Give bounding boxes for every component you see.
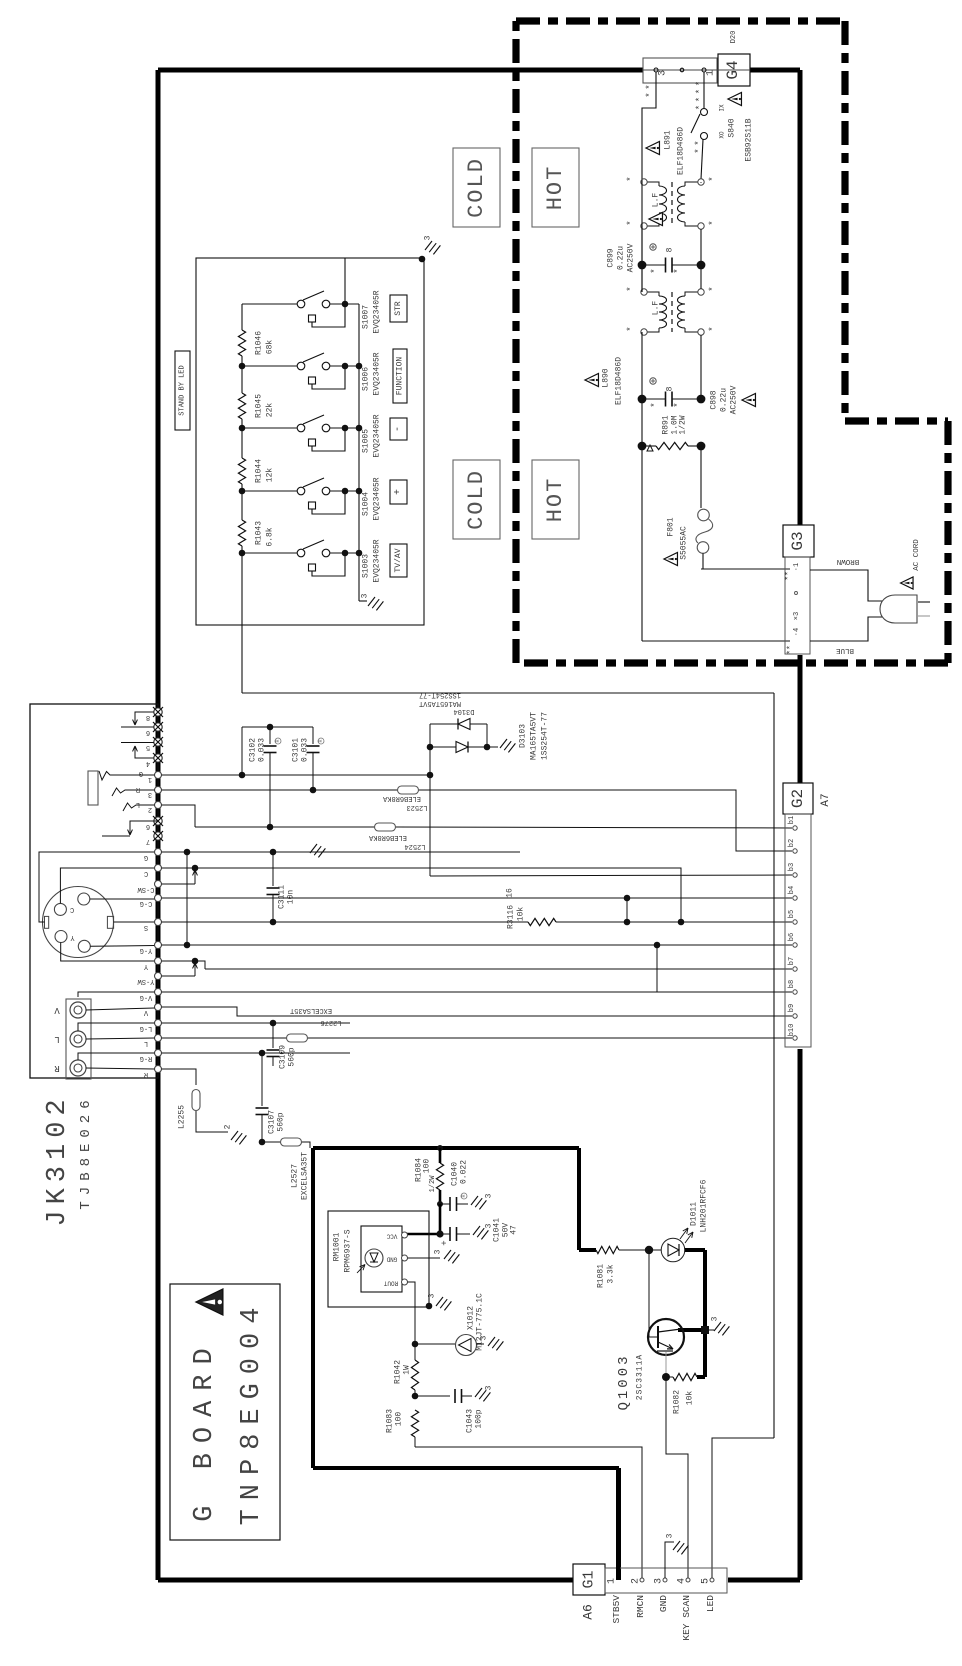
svg-text:2: 2 xyxy=(148,805,152,813)
svg-text:3: 3 xyxy=(485,1385,494,1390)
svg-text:*: * xyxy=(694,148,704,153)
svg-text:*: * xyxy=(695,105,705,110)
svg-text:G2: G2 xyxy=(789,789,807,808)
svg-text:D1011: D1011 xyxy=(690,1202,699,1226)
svg-text:R1083: R1083 xyxy=(386,1409,395,1433)
svg-text:1: 1 xyxy=(607,1578,618,1584)
svg-text:10k: 10k xyxy=(686,1391,695,1406)
svg-text:4: 4 xyxy=(146,759,150,767)
svg-text:3: 3 xyxy=(434,1249,443,1254)
svg-text:EVQ23405R: EVQ23405R xyxy=(373,414,382,457)
svg-text:LNH201RFCF6: LNH201RFCF6 xyxy=(700,1179,709,1232)
svg-text:R1044: R1044 xyxy=(255,459,264,483)
svg-text:**: ** xyxy=(787,645,796,655)
svg-text:EVQ23405R: EVQ23405R xyxy=(373,477,382,520)
svg-text:KEY SCAN: KEY SCAN xyxy=(681,1595,692,1641)
svg-text:S1007: S1007 xyxy=(362,305,371,329)
svg-text:*: * xyxy=(645,92,655,97)
svg-text:L890: L890 xyxy=(602,368,611,387)
svg-text:TJB8E026: TJB8E026 xyxy=(78,1094,94,1209)
svg-text:ROUT: ROUT xyxy=(383,1280,398,1287)
svg-text:*: * xyxy=(708,326,718,331)
svg-text:S840: S840 xyxy=(728,118,737,137)
svg-text:GND: GND xyxy=(386,1256,397,1263)
svg-text:C899: C899 xyxy=(607,248,616,267)
svg-text:100: 100 xyxy=(395,1412,404,1427)
svg-text:*: * xyxy=(626,286,636,291)
svg-text:C: C xyxy=(70,905,74,913)
svg-text:STB5V: STB5V xyxy=(611,1595,622,1624)
svg-text:STR: STR xyxy=(394,301,403,316)
svg-text:100p: 100p xyxy=(475,1409,484,1428)
svg-text:*: * xyxy=(650,402,660,407)
svg-text:AC250V: AC250V xyxy=(730,385,739,414)
svg-text:V: V xyxy=(54,1005,60,1015)
svg-text:R1042: R1042 xyxy=(394,1360,403,1384)
svg-text:8: 8 xyxy=(666,247,675,252)
svg-text:R-G: R-G xyxy=(140,1054,153,1062)
svg-text:8: 8 xyxy=(666,386,675,391)
svg-text:b4: b4 xyxy=(788,886,796,894)
svg-text:C3102: C3102 xyxy=(249,738,258,762)
svg-text:+: + xyxy=(440,1240,450,1245)
svg-text:3: 3 xyxy=(711,1316,720,1321)
svg-text:*: * xyxy=(695,97,705,102)
svg-text:0.033: 0.033 xyxy=(258,738,267,762)
svg-text:*: * xyxy=(695,81,705,86)
svg-text:L2255: L2255 xyxy=(178,1105,187,1129)
svg-text:STAND BY LED: STAND BY LED xyxy=(179,365,187,415)
svg-text:2: 2 xyxy=(224,1124,233,1129)
svg-text:R3116: R3116 xyxy=(507,905,516,929)
svg-text:*: * xyxy=(626,176,636,181)
svg-text:C3107: C3107 xyxy=(268,1110,277,1134)
svg-text:560p: 560p xyxy=(288,1047,297,1066)
svg-text:S5055AC: S5055AC xyxy=(680,526,689,560)
svg-text:1W: 1W xyxy=(403,1365,412,1375)
svg-text:b7: b7 xyxy=(788,957,796,965)
svg-text:R: R xyxy=(275,739,281,742)
svg-text:*: * xyxy=(650,268,660,273)
svg-text:3: 3 xyxy=(424,235,433,240)
svg-text:C3109: C3109 xyxy=(279,1045,288,1069)
svg-text:XO: XO xyxy=(719,131,726,139)
svg-text:TV/AV: TV/AV xyxy=(394,548,403,572)
svg-text:C3101: C3101 xyxy=(292,738,301,762)
svg-text:C-G: C-G xyxy=(140,899,153,907)
svg-text:+: + xyxy=(393,489,404,495)
svg-text:MA165TA5VT: MA165TA5VT xyxy=(419,699,461,707)
svg-text:S1004: S1004 xyxy=(362,492,371,516)
svg-text:0.022: 0.022 xyxy=(460,1160,469,1184)
svg-text:*: * xyxy=(708,176,718,181)
svg-text:22k: 22k xyxy=(266,403,275,418)
svg-text:ELF18D486D: ELF18D486D xyxy=(677,127,686,175)
svg-text:G BOARD: G BOARD xyxy=(190,1338,220,1521)
svg-text:M12JT-775.1C: M12JT-775.1C xyxy=(476,1293,485,1351)
svg-text:b6: b6 xyxy=(788,933,796,941)
svg-text:L: L xyxy=(144,1039,148,1047)
svg-text:L: L xyxy=(54,1034,59,1044)
svg-text:R: R xyxy=(54,1063,60,1073)
svg-text:8: 8 xyxy=(146,713,150,721)
svg-text:L2523: L2523 xyxy=(406,803,427,811)
svg-text:7: 7 xyxy=(146,837,150,845)
svg-text:S: S xyxy=(144,923,148,931)
svg-text:6: 6 xyxy=(146,728,150,736)
svg-text:b5: b5 xyxy=(788,910,796,918)
svg-text:b2: b2 xyxy=(788,839,796,847)
svg-text:-: - xyxy=(393,426,404,432)
svg-text:*: * xyxy=(694,140,704,145)
svg-text:3: 3 xyxy=(148,790,152,798)
svg-text:C898: C898 xyxy=(710,390,719,409)
svg-text:·1: ·1 xyxy=(793,563,801,571)
svg-text:b3: b3 xyxy=(788,863,796,871)
svg-text:R1043: R1043 xyxy=(255,521,264,545)
svg-text:C-SW: C-SW xyxy=(137,885,155,893)
svg-text:C3111: C3111 xyxy=(278,885,287,909)
svg-text:V-G: V-G xyxy=(140,993,153,1001)
svg-text:HOT: HOT xyxy=(543,477,568,523)
svg-text:D3104: D3104 xyxy=(453,707,474,715)
svg-text:L-G: L-G xyxy=(140,1024,153,1032)
svg-text:1/2W: 1/2W xyxy=(429,1175,437,1193)
svg-text:VCC: VCC xyxy=(386,1233,397,1240)
svg-text:HOT: HOT xyxy=(543,165,568,211)
svg-text:b1: b1 xyxy=(788,816,796,824)
svg-text:*: * xyxy=(645,84,655,89)
svg-text:*: * xyxy=(673,268,683,273)
svg-text:R1045: R1045 xyxy=(255,394,264,418)
svg-text:ELEB6R8KA: ELEB6R8KA xyxy=(382,794,421,802)
svg-text:C: C xyxy=(144,869,148,877)
svg-text:6.8k: 6.8k xyxy=(266,527,275,546)
svg-text:3: 3 xyxy=(658,70,669,76)
svg-text:L.F: L.F xyxy=(652,301,661,316)
svg-text:L2276: L2276 xyxy=(320,1018,341,1026)
svg-text:0.22u: 0.22u xyxy=(720,388,729,412)
svg-text:COLD: COLD xyxy=(464,469,489,530)
svg-text:EVQ23405R: EVQ23405R xyxy=(373,539,382,582)
svg-text:X1012: X1012 xyxy=(467,1306,476,1330)
svg-text:EXCELSA35T: EXCELSA35T xyxy=(301,1152,310,1200)
svg-text:RPM6937-S: RPM6937-S xyxy=(344,1229,353,1272)
svg-text:BROWN: BROWN xyxy=(837,557,860,565)
svg-text:MA165TA5VT: MA165TA5VT xyxy=(530,712,539,760)
svg-text:*: * xyxy=(695,89,705,94)
svg-text:R1081: R1081 xyxy=(597,1264,606,1288)
svg-text:RMCN: RMCN xyxy=(635,1595,646,1618)
svg-text:3: 3 xyxy=(666,1533,675,1538)
svg-text:RM1001: RM1001 xyxy=(333,1232,342,1261)
svg-text:IX: IX xyxy=(719,104,726,112)
svg-text:·4: ·4 xyxy=(793,628,801,636)
svg-text:Q1003: Q1003 xyxy=(616,1353,632,1410)
svg-text:16: 16 xyxy=(506,888,515,898)
svg-text:C1041: C1041 xyxy=(493,1218,502,1242)
svg-text:GND: GND xyxy=(658,1595,669,1612)
svg-text:1: 1 xyxy=(148,775,152,783)
svg-text:b8: b8 xyxy=(788,980,796,988)
svg-text:68k: 68k xyxy=(266,340,275,355)
svg-text:LED: LED xyxy=(705,1595,716,1612)
svg-text:AC250V: AC250V xyxy=(627,243,636,272)
svg-text:R: R xyxy=(461,1194,467,1197)
svg-text:R1046: R1046 xyxy=(255,331,264,355)
svg-text:G: G xyxy=(144,853,148,861)
svg-text:*: * xyxy=(708,286,718,291)
svg-text:A6: A6 xyxy=(581,1604,596,1620)
svg-text:0.22u: 0.22u xyxy=(617,246,626,270)
svg-text:12k: 12k xyxy=(266,468,275,483)
svg-text:COLD: COLD xyxy=(464,157,489,218)
svg-text:Y-G: Y-G xyxy=(140,946,153,954)
svg-text:6: 6 xyxy=(146,822,150,830)
svg-text:L2524: L2524 xyxy=(404,842,425,850)
svg-text:L.F: L.F xyxy=(652,193,661,208)
svg-text:C1043: C1043 xyxy=(466,1409,475,1433)
svg-text:R1082: R1082 xyxy=(673,1390,682,1414)
svg-text:10k: 10k xyxy=(517,907,526,922)
svg-text:D3103: D3103 xyxy=(519,724,528,748)
svg-text:R891: R891 xyxy=(662,415,671,434)
svg-text:G1: G1 xyxy=(581,1570,598,1588)
svg-text:b9: b9 xyxy=(788,1004,796,1012)
svg-text:1SS254T-77: 1SS254T-77 xyxy=(419,691,461,699)
svg-text:×3: ×3 xyxy=(793,612,801,620)
svg-text:47: 47 xyxy=(510,1225,519,1235)
svg-text:EVQ23405R: EVQ23405R xyxy=(373,290,382,333)
svg-text:R: R xyxy=(318,739,324,742)
svg-text:1SS254T-77: 1SS254T-77 xyxy=(541,712,550,760)
svg-text:TNP8EG004: TNP8EG004 xyxy=(237,1299,267,1526)
svg-text:560p: 560p xyxy=(277,1112,286,1131)
svg-text:3: 3 xyxy=(361,593,370,598)
svg-text:S1006: S1006 xyxy=(362,367,371,391)
svg-text:3: 3 xyxy=(428,1293,437,1298)
svg-text:A7: A7 xyxy=(820,793,832,806)
svg-text:2SC3311A: 2SC3311A xyxy=(636,1354,645,1400)
svg-text:EVQ23405R: EVQ23405R xyxy=(373,352,382,395)
svg-text:L891: L891 xyxy=(664,130,673,149)
svg-text:1: 1 xyxy=(706,70,717,76)
svg-text:**: ** xyxy=(785,571,794,581)
svg-text:F801: F801 xyxy=(667,517,676,536)
svg-text:b10: b10 xyxy=(788,1024,796,1037)
svg-text:Y-SW: Y-SW xyxy=(137,977,155,985)
svg-text:1/2W: 1/2W xyxy=(679,415,688,434)
svg-text:5: 5 xyxy=(146,743,150,751)
svg-text:10n: 10n xyxy=(287,890,296,905)
svg-text:C1040: C1040 xyxy=(451,1162,460,1186)
svg-text:G3: G3 xyxy=(789,531,807,550)
svg-text:*: * xyxy=(708,220,718,225)
svg-text:L2527: L2527 xyxy=(291,1164,300,1188)
svg-text:BLUE: BLUE xyxy=(836,646,855,654)
svg-text:3.3k: 3.3k xyxy=(607,1264,616,1283)
svg-text:EXCELSA35T: EXCELSA35T xyxy=(290,1006,332,1014)
svg-text:S1005: S1005 xyxy=(362,429,371,453)
svg-text:0.033: 0.033 xyxy=(301,738,310,762)
svg-text:JK3102: JK3102 xyxy=(43,1093,73,1226)
svg-text:AC CORD: AC CORD xyxy=(913,539,921,571)
svg-text:D20: D20 xyxy=(730,31,738,44)
svg-text:ELF18D486D: ELF18D486D xyxy=(615,357,624,405)
svg-text:*: * xyxy=(626,220,636,225)
svg-text:G: G xyxy=(139,769,143,777)
svg-text:ELEB6R8KA: ELEB6R8KA xyxy=(368,833,407,841)
svg-text:100: 100 xyxy=(423,1159,432,1174)
svg-text:FUNCTION: FUNCTION xyxy=(396,357,405,396)
svg-text:*: * xyxy=(626,326,636,331)
svg-text:ESB92S11B: ESB92S11B xyxy=(745,118,754,161)
svg-text:L: L xyxy=(136,800,140,808)
svg-text:3: 3 xyxy=(485,1193,494,1198)
svg-text:S1003: S1003 xyxy=(362,554,371,578)
svg-text:*: * xyxy=(673,402,683,407)
